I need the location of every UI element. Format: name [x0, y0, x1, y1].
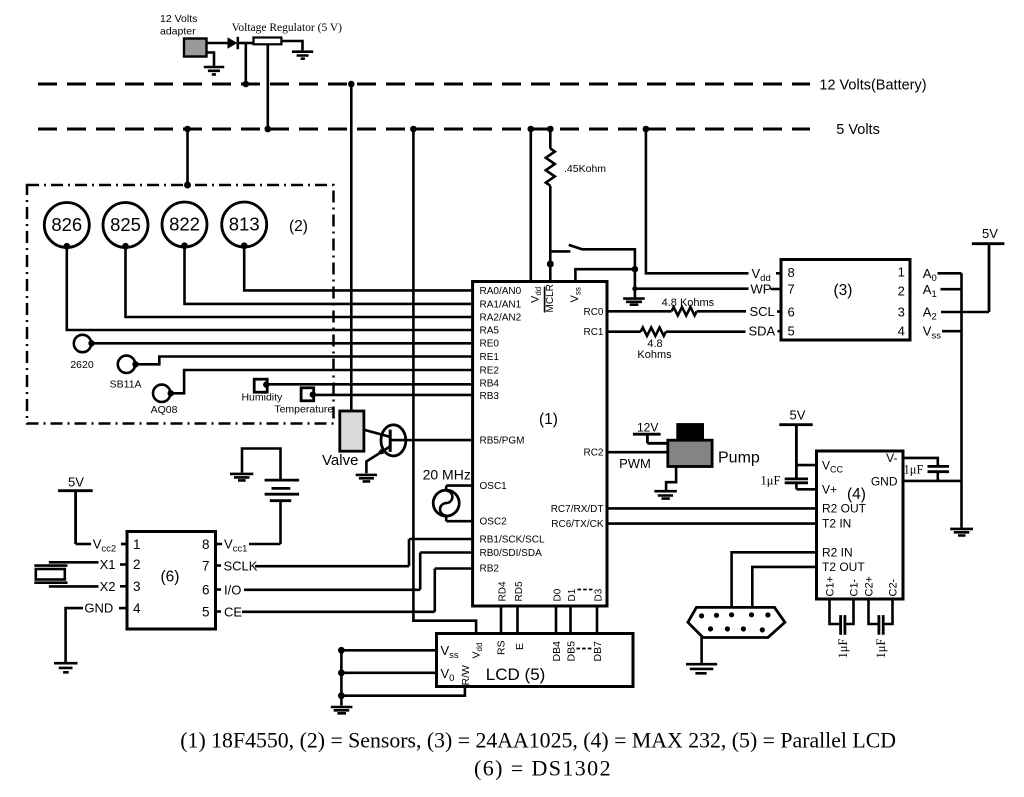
svg-text:RS: RS: [496, 640, 508, 655]
svg-text:PWM: PWM: [619, 456, 651, 471]
svg-text:C2-: C2-: [888, 578, 900, 596]
svg-text:D1: D1: [567, 588, 578, 601]
svg-text:.45Kohm: .45Kohm: [564, 163, 606, 175]
svg-text:RA2/AN2: RA2/AN2: [480, 313, 522, 324]
svg-text:822: 822: [169, 214, 200, 235]
svg-text:RE2: RE2: [480, 366, 500, 377]
svg-text:I/O: I/O: [224, 582, 241, 597]
svg-text:T2 OUT: T2 OUT: [822, 560, 865, 574]
svg-text:1μF: 1μF: [761, 474, 781, 488]
svg-text:12 Volts(Battery): 12 Volts(Battery): [819, 78, 926, 94]
svg-text:T2 IN: T2 IN: [822, 517, 851, 531]
svg-text:SB11A: SB11A: [110, 379, 142, 391]
svg-text:D0: D0: [553, 588, 564, 601]
svg-text:1μF: 1μF: [874, 639, 888, 659]
svg-text:1μF: 1μF: [904, 463, 924, 477]
svg-text:825: 825: [110, 214, 141, 235]
svg-text:Temperature: Temperature: [274, 404, 333, 416]
svg-text:V-: V-: [886, 451, 897, 465]
svg-text:C1-: C1-: [849, 578, 861, 596]
svg-text:DB4: DB4: [551, 641, 563, 662]
svg-text:RB5/PGM: RB5/PGM: [480, 436, 525, 447]
svg-text:2620: 2620: [70, 359, 94, 371]
svg-text:5V: 5V: [68, 475, 84, 490]
svg-text:RB3: RB3: [480, 391, 500, 402]
svg-text:5V: 5V: [982, 226, 998, 241]
svg-text:Valve: Valve: [322, 452, 358, 469]
svg-text:RA0/AN0: RA0/AN0: [480, 286, 522, 297]
svg-text:adapter: adapter: [160, 26, 196, 38]
svg-text:(6) = DS1302: (6) = DS1302: [474, 756, 612, 781]
svg-text:4.8 Kohms: 4.8 Kohms: [662, 297, 715, 309]
svg-text:V+: V+: [822, 482, 837, 496]
svg-text:AQ08: AQ08: [151, 404, 178, 416]
svg-text:RD4: RD4: [498, 581, 509, 601]
svg-text:826: 826: [51, 214, 82, 235]
svg-text:RB0/SDI/SDA: RB0/SDI/SDA: [480, 548, 543, 559]
svg-text:813: 813: [229, 214, 260, 235]
svg-text:5: 5: [788, 324, 795, 339]
svg-text:6: 6: [788, 305, 795, 320]
svg-text:CE: CE: [224, 604, 242, 619]
svg-text:5: 5: [202, 604, 210, 619]
svg-text:(1) 18F4550, (2) = Sensors, (3: (1) 18F4550, (2) = Sensors, (3) = 24AA10…: [180, 729, 896, 753]
svg-text:R2 IN: R2 IN: [822, 545, 853, 559]
svg-text:12 Volts: 12 Volts: [160, 13, 197, 25]
svg-text:RC6/TX/CK: RC6/TX/CK: [551, 519, 604, 530]
svg-text:OSC1: OSC1: [480, 481, 508, 492]
svg-text:RB4: RB4: [480, 379, 500, 390]
svg-text:(6): (6): [161, 569, 180, 586]
svg-text:X1: X1: [100, 557, 116, 572]
svg-text:3: 3: [133, 579, 141, 594]
svg-text:RD5: RD5: [514, 581, 525, 601]
svg-text:RE1: RE1: [480, 352, 500, 363]
svg-text:GND: GND: [871, 474, 898, 488]
svg-text:1μF: 1μF: [836, 639, 850, 659]
svg-text:5V: 5V: [790, 408, 806, 423]
svg-text:6: 6: [202, 582, 210, 597]
svg-text:SCLK: SCLK: [224, 558, 258, 573]
svg-text:8: 8: [788, 265, 795, 280]
svg-text:(1): (1): [539, 411, 558, 428]
svg-text:RA1/AN1: RA1/AN1: [480, 299, 522, 310]
svg-text:4: 4: [133, 601, 141, 616]
svg-text:RE0: RE0: [480, 339, 500, 350]
svg-text:Voltage Regulator (5 V): Voltage Regulator (5 V): [232, 22, 343, 34]
svg-text:SDA: SDA: [749, 324, 776, 339]
svg-text:WP: WP: [751, 282, 772, 297]
svg-text:Humidity: Humidity: [241, 392, 283, 404]
svg-text:(3): (3): [834, 282, 853, 299]
svg-text:DB7: DB7: [592, 641, 604, 662]
svg-text:RB2: RB2: [480, 564, 500, 575]
svg-text:3: 3: [898, 305, 905, 320]
svg-text:1: 1: [133, 537, 141, 552]
svg-text:C1+: C1+: [825, 576, 837, 597]
svg-text:MCLR: MCLR: [545, 284, 556, 312]
svg-text:RA5: RA5: [480, 326, 500, 337]
svg-text:RC2: RC2: [583, 448, 603, 459]
svg-text:X2: X2: [100, 579, 116, 594]
svg-text:(2): (2): [289, 218, 308, 235]
svg-text:7: 7: [202, 558, 210, 573]
svg-text:2: 2: [133, 557, 141, 572]
svg-text:D3: D3: [594, 588, 605, 601]
svg-text:R/W: R/W: [460, 665, 472, 686]
svg-text:R2 OUT: R2 OUT: [822, 501, 867, 515]
svg-text:RC1: RC1: [583, 327, 603, 338]
svg-text:C2+: C2+: [864, 576, 876, 597]
svg-text:7: 7: [788, 282, 795, 297]
svg-text:Kohms: Kohms: [637, 349, 672, 361]
svg-text:RB1/SCK/SCL: RB1/SCK/SCL: [480, 535, 545, 546]
svg-text:Pump: Pump: [718, 450, 760, 467]
svg-text:GND: GND: [84, 601, 113, 616]
svg-text:1: 1: [898, 265, 905, 280]
svg-text:12V: 12V: [637, 421, 658, 435]
svg-text:OSC2: OSC2: [480, 517, 508, 528]
svg-text:2: 2: [898, 284, 905, 299]
svg-text:5 Volts: 5 Volts: [836, 122, 880, 138]
svg-text:LCD (5): LCD (5): [486, 665, 546, 684]
svg-text:20 MHz: 20 MHz: [423, 467, 471, 483]
svg-text:SCL: SCL: [750, 304, 775, 319]
svg-text:RC7/RX/DT: RC7/RX/DT: [551, 504, 604, 515]
svg-text:E: E: [514, 643, 526, 650]
svg-text:RC0: RC0: [583, 307, 603, 318]
svg-text:8: 8: [202, 537, 210, 552]
svg-text:4: 4: [898, 324, 905, 339]
svg-text:DB5: DB5: [566, 641, 578, 662]
